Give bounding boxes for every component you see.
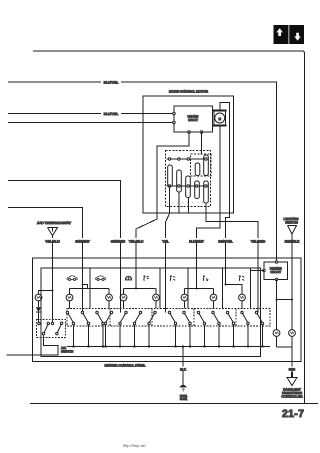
svg-text:MODE CONTROL MOTOR: MODE CONTROL MOTOR bbox=[169, 90, 209, 94]
mid bus of switch bbox=[167, 185, 209, 187]
lighting switch bbox=[284, 217, 300, 234]
wire: second input line to driving circuit bbox=[8, 122, 174, 124]
svg-text:BLU/WHT: BLU/WHT bbox=[189, 239, 204, 243]
ground G301/G401 bbox=[179, 347, 188, 402]
label RED bbox=[288, 367, 296, 372]
svg-text:SWITCH: SWITCH bbox=[61, 350, 73, 354]
wire: GRN/RED feed line bbox=[8, 181, 121, 313]
contact group 4 bbox=[104, 311, 112, 347]
svg-text:RED: RED bbox=[289, 367, 296, 371]
mode control motor box bbox=[143, 96, 234, 213]
bottom rule bbox=[30, 403, 318, 405]
icon recirc car bbox=[67, 276, 78, 281]
icon fresh-air car bbox=[95, 276, 106, 281]
contact group 12 bbox=[226, 311, 234, 347]
icon bilevel person bbox=[170, 275, 175, 280]
bulb L7 bbox=[210, 294, 217, 301]
dash bulb L10 bbox=[289, 330, 296, 337]
icon defrost bbox=[125, 276, 131, 280]
svg-text:21-7: 21-7 bbox=[282, 408, 304, 420]
driving circuit U1 bbox=[173, 106, 213, 133]
A/C thermostat bbox=[37, 221, 71, 236]
bulb L3 bbox=[106, 294, 113, 301]
svg-text:GRN/RED: GRN/RED bbox=[111, 239, 126, 243]
svg-text:YEL/BLU: YEL/BLU bbox=[45, 239, 60, 243]
junction dots bbox=[52, 284, 294, 348]
icon vent person bbox=[143, 275, 148, 280]
wire: A/C switch output bbox=[6, 335, 58, 355]
wire: BLU/YEL line to driving circuit bbox=[8, 113, 174, 115]
wire: bulb lower stems bbox=[70, 301, 243, 309]
wire: bulb bar 3 bbox=[185, 289, 214, 295]
wire: dimming to bulbs bbox=[277, 280, 293, 330]
wire: switch stub 3 bbox=[187, 198, 189, 214]
wire: driving circuit out1 to YEL/BLU bbox=[136, 132, 189, 289]
contact group 6 bbox=[133, 311, 141, 347]
wire label row bbox=[44, 238, 301, 243]
svg-text:RED/BLK: RED/BLK bbox=[285, 239, 301, 243]
diode D1 bbox=[36, 301, 41, 323]
contact group 14 bbox=[255, 311, 263, 347]
dashlight controller connector bbox=[287, 372, 297, 386]
bulb L2 bbox=[66, 294, 73, 301]
svg-text:SWITCH: SWITCH bbox=[285, 220, 298, 224]
wire: top feed line around page bbox=[33, 51, 305, 404]
heater control panel outer box bbox=[33, 258, 302, 362]
wire: bulb L1 tap bbox=[39, 291, 53, 295]
svg-text:htlp://tmp.ac/: htlp://tmp.ac/ bbox=[123, 443, 147, 448]
contact group 7 bbox=[148, 311, 156, 347]
column dividers bbox=[89, 268, 91, 309]
contact group 13 bbox=[241, 311, 249, 347]
svg-text:A/C THERMOSTAT: A/C THERMOSTAT bbox=[37, 221, 71, 225]
svg-text:GRN/WHT: GRN/WHT bbox=[75, 239, 90, 243]
motor M1 bbox=[213, 111, 227, 126]
svg-text:M: M bbox=[218, 117, 221, 121]
label BLU/YEL bbox=[101, 111, 121, 116]
wire: dash bulbs to red bbox=[277, 336, 293, 372]
wire: bulb bar 2 bbox=[124, 289, 157, 295]
contact group 9 bbox=[183, 311, 191, 347]
svg-text:1 2 3 4 5 6 7 8: 1 2 3 4 5 6 7 8 bbox=[167, 202, 205, 205]
contact group 10 bbox=[197, 311, 205, 347]
svg-text:GRN/YEL: GRN/YEL bbox=[218, 239, 233, 243]
wire: dimming left bbox=[251, 270, 265, 272]
svg-text:CIRCUIT: CIRCUIT bbox=[270, 270, 281, 274]
icon heat person bbox=[203, 275, 208, 280]
icon heat-def person bbox=[239, 275, 244, 280]
wire: RED/BLK from lighting switch bbox=[291, 234, 293, 330]
contact group 5 bbox=[119, 311, 127, 347]
svg-text:CONTROLLER: CONTROLLER bbox=[281, 395, 303, 399]
contact group 8 bbox=[168, 311, 176, 347]
wire: motor top to GRN/YEL bbox=[220, 103, 230, 285]
wire: BLU/WHT to bar3 bbox=[196, 243, 198, 289]
mode position switch S1 (dashed) bbox=[166, 151, 212, 207]
wire: GRN/WHT feed line bbox=[8, 208, 83, 313]
label DASHLIGHT BRIGHTNESS CONTROLLER bbox=[281, 388, 303, 399]
svg-text:CIRCUIT: CIRCUIT bbox=[188, 118, 198, 122]
wire: switch stub 2 bbox=[178, 192, 180, 213]
A/C switch S2 bbox=[37, 320, 66, 338]
top bus of switch bbox=[167, 158, 207, 160]
svg-text:BLK: BLK bbox=[180, 367, 187, 371]
contact group 1 bbox=[66, 311, 74, 347]
svg-text:BLU/YEL: BLU/YEL bbox=[104, 80, 119, 84]
svg-text:YEL/BLU: YEL/BLU bbox=[129, 239, 144, 243]
dash bulb L9 bbox=[273, 330, 280, 337]
svg-text:G401: G401 bbox=[180, 397, 188, 401]
heater control panel inner box bbox=[41, 268, 261, 357]
bulb L4 bbox=[120, 294, 127, 301]
bulb L8 bbox=[239, 294, 246, 301]
wire: bulb bar 1 bbox=[70, 289, 110, 295]
contact group 3 bbox=[96, 311, 104, 347]
label BLU/YEL bbox=[101, 80, 121, 85]
wire: switch to BLU/WHT bbox=[206, 203, 258, 313]
svg-text:YEL: YEL bbox=[162, 239, 169, 243]
svg-text:HEATER CONTROL PANEL: HEATER CONTROL PANEL bbox=[105, 364, 146, 368]
bulb L1 bbox=[35, 294, 42, 301]
contact group 2 bbox=[81, 311, 89, 347]
pushbutton switch row (dashed) bbox=[67, 309, 270, 327]
svg-text:YEL/RED: YEL/RED bbox=[251, 239, 266, 243]
wire: driving circuit out2 into switch bbox=[201, 132, 203, 154]
contact group 11 bbox=[212, 311, 220, 347]
wire: motor bottom to YEL/RED bbox=[197, 126, 220, 289]
dimming circuit U2 bbox=[263, 261, 288, 281]
svg-text:BLU/YEL: BLU/YEL bbox=[104, 112, 119, 116]
bulb L6 bbox=[181, 294, 188, 301]
wire: switch to YEL bbox=[166, 187, 170, 313]
page nav icon bbox=[274, 25, 305, 44]
bulb L5 bbox=[153, 294, 160, 301]
wire: YEL/BLU from thermostat into panel bbox=[52, 236, 54, 324]
wire: YEL/BLU to bar2 bbox=[135, 288, 137, 290]
slider contact bars bbox=[168, 165, 173, 187]
wire: bulb L8 tap bbox=[226, 285, 243, 295]
wire: BLU/YEL line to dimming circuit bbox=[8, 82, 277, 262]
ground bus bbox=[67, 346, 270, 348]
